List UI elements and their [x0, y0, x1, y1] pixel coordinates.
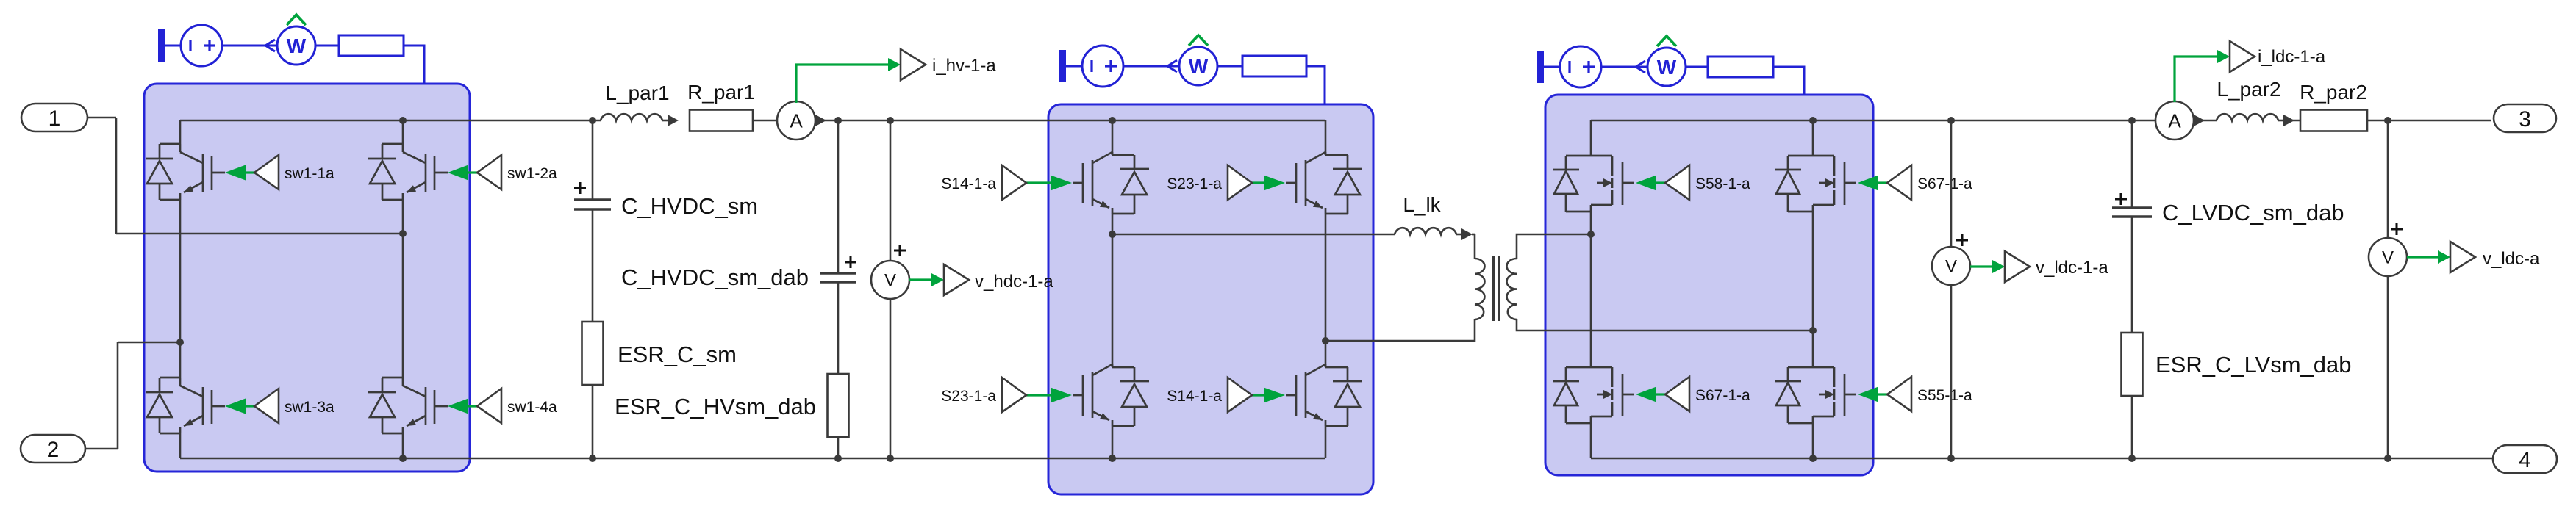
wire chain2 bar to current source	[1066, 65, 1082, 68]
svg-text:ESR_C_sm: ESR_C_sm	[618, 342, 737, 367]
wire ESR_C_sm bottom	[592, 385, 594, 458]
signal port triangle i_ldc-1-a	[2230, 41, 2255, 72]
signal arrow into i_ldc-1-a	[2217, 50, 2230, 63]
node v_ldc-1 bottom	[1947, 455, 1955, 462]
svg-text:S58-1-a: S58-1-a	[1695, 176, 1750, 192]
gate port triangle sw1-4a	[477, 389, 501, 423]
wire DAB LV right leg middle	[1812, 212, 1814, 366]
svg-text:S67-1-a: S67-1-a	[1695, 387, 1750, 404]
gate port triangle S23-1-a	[1002, 378, 1026, 412]
transistor MOSFET S58-1-a with antiparallel diode	[1553, 156, 1634, 212]
signal caret above wattmeter chain1	[287, 15, 306, 25]
node bottom rail sw1 right leg	[399, 455, 407, 462]
svg-text:i_hv-1-a: i_hv-1-a	[932, 56, 996, 76]
transistor IGBT sw1-2a with antiparallel diode	[368, 144, 448, 200]
gate port triangle S23-1-a	[1228, 165, 1252, 200]
wire sw1 left leg top	[179, 120, 182, 144]
wire green ammeter to i_ldc-1-a	[2175, 57, 2219, 102]
svg-text:ESR_C_LVsm_dab: ESR_C_LVsm_dab	[2155, 352, 2352, 378]
port 1	[21, 104, 87, 131]
transistor IGBT sw1-4a with antiparallel diode	[368, 378, 448, 433]
node DAB HV left leg bottom	[1109, 455, 1116, 462]
wire voltmeter v_ldc-1 bottom	[1950, 285, 1953, 458]
gate port triangle sw1-1a	[254, 155, 279, 189]
wire voltmeter v_ldc bottom	[2387, 275, 2389, 458]
resistor ESR_C_sm	[582, 322, 604, 385]
svg-text:S14-1-a: S14-1-a	[1167, 388, 1222, 405]
wire chain3 resistor to module	[1773, 67, 1804, 95]
wire ESR_C_LVsm_dab bottom	[2131, 396, 2133, 458]
polarity plus v_ldc-1	[1956, 234, 1968, 246]
meter ammeter A i_hv	[777, 101, 815, 140]
resistor chain1	[339, 35, 404, 56]
svg-text:sw1-3a: sw1-3a	[285, 399, 334, 416]
wire top rail LV side	[1591, 120, 2159, 122]
inductor L_par2	[2217, 114, 2294, 126]
gate port triangle S14-1-a	[1002, 165, 1026, 200]
transistor MOSFET S67-1-a with antiparallel diode	[1553, 367, 1634, 423]
wire transformer secondary bottom lead	[1517, 319, 1813, 331]
svg-text:S67-1-a: S67-1-a	[1917, 176, 1972, 192]
polarity plus C_HVDC_sm_dab	[845, 256, 856, 268]
resistor R_par1	[690, 110, 753, 131]
polarity plus C_LVDC_sm_dab	[2115, 193, 2127, 205]
wire sw1 right leg bottom	[402, 433, 404, 458]
current source I chain1	[181, 25, 222, 66]
svg-text:L_par2: L_par2	[2217, 78, 2280, 101]
wire DAB LV right leg bottom	[1812, 423, 1814, 458]
node port2 junction	[176, 339, 184, 346]
gate signal arrow S14-1-a	[1252, 388, 1285, 403]
signal caret above wattmeter chain2	[1189, 35, 1208, 46]
wire R_par1 to ammeter	[753, 120, 779, 122]
wire port1 stub	[87, 117, 116, 119]
port 4	[2493, 445, 2557, 473]
transistor IGBT S14-1-a top with antiparallel diode	[1073, 152, 1149, 214]
svg-text:C_HVDC_sm: C_HVDC_sm	[621, 193, 758, 219]
svg-text:1: 1	[49, 106, 61, 131]
inductor L_par1	[601, 114, 679, 126]
svg-text:v_ldc-a: v_ldc-a	[2483, 249, 2540, 269]
wire chain1 bar to current source	[165, 45, 181, 47]
gate signal arrow S58-1-a	[1636, 176, 1665, 191]
polarity plus C_HVDC_sm	[574, 182, 586, 194]
wire chain3 wattmeter to resistor	[1686, 66, 1708, 68]
wire transformer secondary top lead	[1517, 234, 1591, 259]
svg-text:V: V	[884, 271, 896, 291]
node v_hdc bottom	[887, 455, 894, 462]
capacitor C_HVDC_sm	[574, 200, 611, 209]
node top rail sw1 right leg	[399, 117, 407, 124]
signal arrow into v_ldc-1-a	[1992, 260, 2005, 273]
signal arrow into i_hv-1-a	[888, 58, 901, 71]
signal port triangle v_hdc-1-a	[944, 264, 969, 295]
wattmeter W chain2	[1179, 47, 1217, 85]
gate signal arrow sw1-3a	[225, 399, 254, 414]
wire bottom rail HV side	[180, 458, 1325, 460]
wire bottom rail LV side	[1591, 458, 2493, 460]
svg-text:A: A	[790, 109, 803, 131]
gate port triangle S67-1-a	[1665, 377, 1689, 411]
loss measurement chain 2: terminal bar	[1059, 50, 1066, 82]
svg-text:sw1-1a: sw1-1a	[285, 165, 334, 182]
node transformer primary junction	[1322, 337, 1329, 344]
node ESR_C_sm bottom	[589, 455, 596, 462]
transistor MOSFET S67-1-a with antiparallel diode	[1775, 156, 1856, 212]
loss measurement chain 1: terminal bar	[158, 29, 165, 62]
gate signal arrow sw1-1a	[225, 165, 254, 181]
wire sw1 left leg bottom	[179, 433, 182, 458]
node DAB HV left leg top	[1109, 117, 1116, 124]
wire chain3 bar to current source	[1544, 66, 1560, 68]
svg-text:v_hdc-1-a: v_hdc-1-a	[975, 272, 1053, 292]
svg-text:4: 4	[2519, 448, 2531, 472]
svg-text:sw1-4a: sw1-4a	[507, 399, 557, 416]
svg-text:V: V	[2382, 248, 2394, 268]
svg-text:C_HVDC_sm_dab: C_HVDC_sm_dab	[621, 264, 809, 290]
polarity plus v_hdc	[894, 245, 906, 256]
svg-text:C_LVDC_sm_dab: C_LVDC_sm_dab	[2162, 200, 2344, 225]
wire chain2 wattmeter to resistor	[1217, 65, 1242, 68]
svg-text:L_par1: L_par1	[605, 82, 669, 104]
current direction arrow after ammeter A	[815, 115, 826, 127]
wire green ammeter to i_hv-1-a	[796, 65, 891, 103]
wire port1 to right leg midpoint	[116, 233, 403, 235]
inductor L_lk	[1395, 228, 1473, 240]
capacitor C_HVDC_sm_dab	[820, 273, 856, 282]
wire L_lk to transformer	[1472, 234, 1475, 236]
node port1 junction	[399, 230, 407, 237]
wire port1 down	[115, 118, 118, 234]
resistor ESR_C_HVsm_dab	[828, 374, 849, 437]
wire sw1 right leg middle	[402, 200, 404, 378]
submodule box DAB LV bridge	[1545, 95, 1873, 475]
wire voltmeter v_ldc top	[2387, 120, 2389, 239]
wire DAB HV left leg bottom	[1112, 426, 1114, 458]
signal port triangle v_ldc-1-a	[2005, 251, 2030, 282]
gate signal arrow S67-1-a	[1636, 387, 1665, 402]
node C_HVDC_sm_dab tap	[834, 117, 842, 124]
wire DAB LV right leg top	[1812, 120, 1814, 156]
wire DAB HV left leg top	[1112, 120, 1114, 155]
wire ammeter to L_par2	[2193, 120, 2217, 122]
svg-text:2: 2	[47, 438, 60, 462]
wire DAB HV right leg top	[1325, 120, 1327, 155]
current direction arrow after ammeter A ldc	[2193, 115, 2205, 127]
transistor IGBT S23-1-a top with antiparallel diode	[1286, 152, 1362, 214]
gate signal arrow S67-1-a	[1858, 176, 1887, 191]
polarity plus v_ldc	[2391, 223, 2403, 235]
wire top rail HV left	[180, 120, 601, 122]
gate signal arrow S23-1-a	[1026, 388, 1072, 403]
gate signal arrow S14-1-a	[1026, 176, 1072, 191]
wire C_HVDC_sm_dab to ESR	[837, 282, 840, 374]
wire ESR_C_HVsm_dab bottom	[837, 437, 840, 458]
wire green voltmeter to v_ldc-1-a	[1970, 265, 1994, 267]
node transformer secondary top junction	[1587, 231, 1595, 238]
svg-text:S14-1-a: S14-1-a	[941, 176, 996, 192]
signal arrow into v_hdc-1-a	[931, 273, 944, 286]
wire port2 up	[117, 342, 119, 449]
port 3	[2494, 104, 2556, 132]
resistor chain3	[1708, 57, 1773, 77]
node v_hdc tap	[887, 117, 894, 124]
transformer core	[1494, 256, 1499, 321]
loss measurement chain 3: terminal bar	[1537, 51, 1544, 83]
svg-text:V: V	[1945, 257, 1957, 277]
wire port2 stub	[85, 448, 118, 450]
transistor IGBT S23-1-a bottom with antiparallel diode	[1073, 364, 1149, 426]
transformer primary winding	[1475, 259, 1485, 319]
node DAB LV right leg top	[1809, 117, 1817, 124]
submodule box DAB HV bridge	[1048, 104, 1373, 494]
transistor IGBT sw1-1a with antiparallel diode	[146, 144, 225, 200]
svg-text:S23-1-a: S23-1-a	[941, 388, 996, 405]
wire chain1 wattmeter to resistor	[315, 45, 339, 47]
port 2	[21, 435, 85, 463]
resistor chain2	[1242, 56, 1306, 76]
wire chain3 source to wattmeter with arrow	[1601, 61, 1656, 73]
gate port triangle S14-1-a	[1228, 378, 1252, 412]
resistor R_par2	[2300, 110, 2367, 131]
node ESR_C_HVsm_dab bottom	[834, 455, 842, 462]
transformer secondary winding	[1507, 259, 1517, 319]
signal port triangle v_ldc-a	[2450, 242, 2475, 272]
submodule box HV bridge sw1	[144, 84, 470, 472]
capacitor C_LVDC_sm_dab	[2112, 208, 2152, 217]
gate port triangle S67-1-a	[1887, 165, 1911, 200]
wire voltmeter v_hdc top	[890, 120, 892, 261]
gate signal arrow sw1-4a	[448, 399, 477, 414]
wire C_HVDC_sm to ESR_C_sm	[592, 209, 594, 322]
wire chain1 resistor to module	[404, 46, 424, 84]
meter voltmeter v_ldc	[2369, 238, 2407, 276]
wire sw1 right leg top	[402, 120, 404, 144]
resistor ESR_C_LVsm_dab	[2122, 333, 2143, 396]
gate port triangle S55-1-a	[1887, 377, 1911, 411]
svg-text:S23-1-a: S23-1-a	[1167, 176, 1222, 192]
current source I chain2	[1082, 46, 1123, 87]
wire transformer primary bottom lead	[1325, 319, 1475, 341]
wire top rail to DAB HV bridge	[814, 120, 1325, 122]
svg-text:R_par2: R_par2	[2300, 81, 2367, 104]
wire transformer primary top lead	[1474, 234, 1476, 259]
gate signal arrow sw1-2a	[448, 165, 477, 181]
wire C_HVDC_sm top	[592, 120, 594, 200]
gate signal arrow S55-1-a	[1858, 387, 1887, 402]
transistor IGBT sw1-3a with antiparallel diode	[146, 378, 225, 433]
wire R_par2 to port 3	[2367, 120, 2491, 122]
svg-text:A: A	[2168, 109, 2181, 131]
wire green voltmeter to v_hdc-1-a	[909, 278, 932, 281]
transistor MOSFET S55-1-a with antiparallel diode	[1775, 367, 1856, 423]
svg-text:ESR_C_HVsm_dab: ESR_C_HVsm_dab	[615, 394, 816, 419]
transistor IGBT S14-1-a bottom with antiparallel diode	[1286, 364, 1362, 426]
wattmeter W chain1	[277, 26, 315, 65]
svg-text:v_ldc-1-a: v_ldc-1-a	[2036, 258, 2108, 278]
wire green voltmeter to v_ldc-a	[2407, 256, 2439, 258]
signal port triangle i_hv-1-a	[901, 49, 926, 80]
wire chain1 source to wattmeter with arrow	[222, 40, 277, 51]
wire DAB LV left leg middle	[1590, 212, 1592, 366]
node v_ldc bottom	[2384, 455, 2391, 462]
wire C_LVDC_sm_dab to ESR	[2131, 217, 2133, 333]
svg-text:W: W	[287, 35, 307, 57]
meter voltmeter v_hdc	[871, 261, 909, 299]
current source I chain3	[1560, 46, 1601, 87]
svg-text:R_par1: R_par1	[687, 81, 755, 104]
wire L_par2 to R_par2	[2286, 120, 2302, 122]
svg-text:sw1-2a: sw1-2a	[507, 165, 557, 182]
signal arrow into v_ldc-a	[2438, 250, 2450, 264]
gate port triangle sw1-3a	[254, 389, 279, 423]
wattmeter W chain3	[1647, 48, 1686, 86]
gate port triangle S58-1-a	[1665, 165, 1689, 200]
svg-text:W: W	[1657, 56, 1677, 79]
svg-text:W: W	[1189, 55, 1209, 78]
node DAB LV right leg bottom	[1809, 455, 1817, 462]
svg-text:S55-1-a: S55-1-a	[1917, 387, 1972, 404]
node v_ldc tap	[2384, 117, 2391, 124]
node C_HVDC_sm tap	[589, 117, 596, 124]
wire C_LVDC_sm_dab top	[2131, 120, 2133, 208]
svg-text:i_ldc-1-a: i_ldc-1-a	[2258, 47, 2326, 67]
wire DAB HV right leg middle	[1325, 214, 1327, 366]
gate port triangle sw1-2a	[477, 155, 501, 189]
wire DAB LV left leg bottom	[1590, 423, 1592, 458]
node C_LVDC_sm_dab tap	[2128, 117, 2136, 124]
node v_ldc-1 tap	[1947, 117, 1955, 124]
wire C_HVDC_sm_dab top	[837, 120, 840, 273]
wire voltmeter v_ldc-1 top	[1950, 120, 1953, 247]
wire port2 to left leg midpoint	[118, 342, 180, 344]
node transformer secondary bottom junction	[1809, 327, 1817, 334]
wire DAB HV left leg middle	[1112, 214, 1114, 366]
wire DAB LV left leg top	[1590, 120, 1592, 156]
wire DAB HV left leg mid to L_lk	[1112, 234, 1395, 236]
wire voltmeter v_hdc bottom	[890, 299, 892, 458]
svg-text:L_lk: L_lk	[1403, 193, 1441, 216]
svg-text:3: 3	[2519, 107, 2531, 131]
node L_lk junction	[1109, 231, 1116, 238]
meter ammeter A i_ldc	[2155, 101, 2194, 140]
wire chain2 resistor to module	[1306, 66, 1325, 105]
wire chain2 source to wattmeter with arrow	[1123, 60, 1178, 72]
signal caret above wattmeter chain3	[1657, 36, 1676, 46]
wire DAB HV right leg bottom	[1325, 426, 1327, 458]
node ESR_C_LVsm_dab bottom	[2128, 455, 2136, 462]
meter voltmeter v_ldc-1	[1932, 247, 1970, 285]
gate signal arrow S23-1-a	[1252, 176, 1285, 191]
wire sw1 left leg middle	[179, 200, 182, 378]
